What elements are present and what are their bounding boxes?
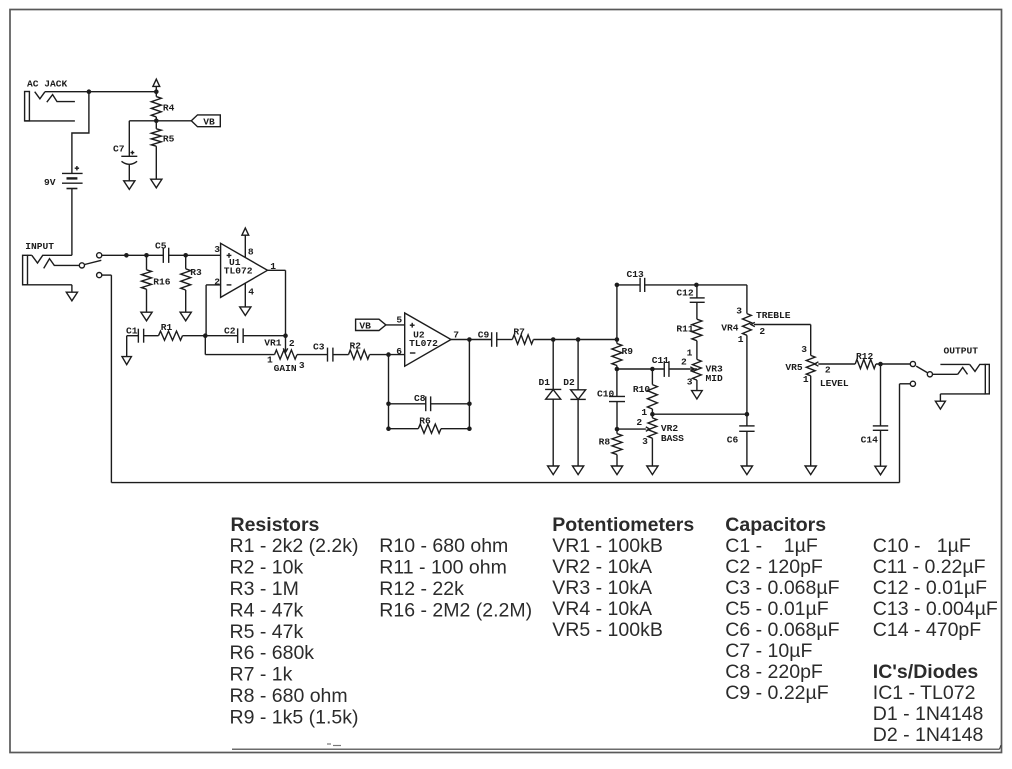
svg-text:VR5 - 100kB: VR5 - 100kB xyxy=(552,619,663,641)
svg-text:1: 1 xyxy=(267,354,273,365)
ground (C6) xyxy=(741,466,752,475)
power arrow (9V supply) xyxy=(153,79,160,86)
svg-text:TL072: TL072 xyxy=(224,266,253,277)
svg-text:R16 - 2M2 (2.2M): R16 - 2M2 (2.2M) xyxy=(379,599,532,621)
svg-text:8: 8 xyxy=(248,247,254,258)
wire: arrow to junction xyxy=(155,87,157,97)
junction: C13 left xyxy=(615,283,620,288)
ground (C14) xyxy=(875,466,886,475)
svg-text:1: 1 xyxy=(803,374,809,385)
wire: VB tag to pin 5 xyxy=(386,324,405,326)
wire: battery negative to input jack xyxy=(71,189,73,256)
svg-text:C9 - 0.22µF: C9 - 0.22µF xyxy=(725,682,828,704)
svg-text:R4: R4 xyxy=(163,103,175,114)
wire: R4 to VB node xyxy=(155,117,157,129)
svg-text:IC1 - TL072: IC1 - TL072 xyxy=(873,682,976,704)
svg-text:R2: R2 xyxy=(350,341,362,352)
ground (D1) xyxy=(548,466,559,475)
junction: D2 top xyxy=(576,337,581,342)
svg-text:C14 - 470pF: C14 - 470pF xyxy=(873,619,981,641)
potentiometer VR5 LEVEL xyxy=(810,325,812,356)
resistor R12 xyxy=(855,359,876,368)
svg-text:3: 3 xyxy=(687,377,693,388)
svg-text:Potentiometers: Potentiometers xyxy=(552,514,694,536)
wire: VR2 node to C6 xyxy=(652,413,747,415)
svg-text:C5: C5 xyxy=(155,240,167,251)
resistor R7 xyxy=(512,335,533,344)
svg-text:5: 5 xyxy=(396,314,402,325)
wire: VB node to tag xyxy=(156,120,191,122)
resistor R4 xyxy=(151,97,161,117)
svg-text:C8: C8 xyxy=(414,393,426,404)
svg-text:C2 - 120pF: C2 - 120pF xyxy=(725,556,823,578)
svg-text:C13 - 0.004µF: C13 - 0.004µF xyxy=(873,598,998,620)
resistor R1 xyxy=(159,331,183,340)
wire: feedback to output xyxy=(468,340,470,429)
wire: U2 output xyxy=(451,339,492,341)
wire: battery positive xyxy=(72,92,89,174)
svg-text:R12 - 22k: R12 - 22k xyxy=(379,578,464,600)
ground (input jack) xyxy=(66,292,77,301)
wire: feedback vertical xyxy=(388,355,390,429)
junction: R16 top xyxy=(144,253,149,258)
svg-text:1: 1 xyxy=(641,407,647,418)
ground (VR3) xyxy=(692,391,703,399)
junction: R9/C13 node xyxy=(615,337,620,342)
svg-text:C13: C13 xyxy=(627,269,645,280)
svg-text:LEVEL: LEVEL xyxy=(820,378,849,389)
resistor R2 xyxy=(349,350,370,359)
svg-text:C9: C9 xyxy=(478,329,490,340)
svg-text:2: 2 xyxy=(681,356,687,367)
wire: R12 to switch xyxy=(876,363,910,365)
junction: C10/R8/VR2 wiper xyxy=(615,427,620,432)
svg-text:2: 2 xyxy=(636,417,642,428)
svg-text:C7 - 10µF: C7 - 10µF xyxy=(725,640,812,662)
junction: C12 top xyxy=(694,283,699,288)
potentiometer VR1 GAIN xyxy=(204,336,206,355)
svg-text:R1: R1 xyxy=(161,322,173,333)
wire: pin 2 feedback xyxy=(206,284,221,286)
ground (U1 pin 4) xyxy=(240,307,251,316)
wire: U1 output xyxy=(268,269,286,271)
svg-text:R8: R8 xyxy=(599,437,611,448)
svg-text:VR2 - 10kA: VR2 - 10kA xyxy=(552,556,652,578)
wire: VB node to C7 xyxy=(129,120,156,122)
wire: R5 to ground xyxy=(155,146,157,179)
svg-text:R2 - 10k: R2 - 10k xyxy=(230,557,304,579)
svg-text:3: 3 xyxy=(299,360,305,371)
svg-text:C5 - 0.01µF: C5 - 0.01µF xyxy=(725,598,828,620)
svg-text:R8 - 680 ohm: R8 - 680 ohm xyxy=(230,685,348,707)
junction: input line xyxy=(124,253,129,258)
svg-text:C14: C14 xyxy=(861,434,879,445)
svg-text:VR1 - 100kB: VR1 - 100kB xyxy=(552,535,663,557)
wire: switch to C5 xyxy=(102,254,163,256)
svg-text:2: 2 xyxy=(214,276,220,287)
svg-text:VR4: VR4 xyxy=(721,323,739,334)
junction: U1 inverting node xyxy=(203,333,208,338)
svg-text:R7 - 1k: R7 - 1k xyxy=(230,664,293,686)
AC jack connector xyxy=(25,92,30,121)
svg-text:VR5: VR5 xyxy=(785,362,803,373)
svg-text:OUTPUT: OUTPUT xyxy=(944,345,979,356)
svg-text:D1: D1 xyxy=(539,377,551,388)
svg-text:4: 4 xyxy=(248,287,254,298)
svg-text:6: 6 xyxy=(396,346,402,357)
svg-text:IC's/Diodes: IC's/Diodes xyxy=(873,661,979,683)
svg-text:R5 - 47k: R5 - 47k xyxy=(230,621,304,643)
svg-text:C11: C11 xyxy=(652,355,670,366)
svg-text:7: 7 xyxy=(453,329,459,340)
resistor R16 xyxy=(146,255,148,269)
resistor R5 xyxy=(151,129,161,146)
svg-text:D1 - 1N4148: D1 - 1N4148 xyxy=(873,703,984,725)
svg-text:9V: 9V xyxy=(44,177,56,188)
resistor R11 xyxy=(692,319,702,341)
ground (VR5) xyxy=(805,466,816,475)
junction: C14 top xyxy=(878,362,883,367)
svg-text:R11 - 100 ohm: R11 - 100 ohm xyxy=(379,557,507,579)
wire: AC jack to R4 node xyxy=(45,91,156,93)
junction: C6 top xyxy=(745,412,750,417)
svg-text:1: 1 xyxy=(738,334,744,345)
junction: C8 right xyxy=(467,402,472,407)
svg-text:3: 3 xyxy=(801,344,807,355)
power arrow (U1 pin 8) xyxy=(242,228,249,235)
svg-text:R10: R10 xyxy=(633,384,651,395)
input jack connector xyxy=(23,255,28,284)
op-amp U2 TL072 xyxy=(405,313,451,366)
svg-text:R12: R12 xyxy=(856,351,874,362)
svg-text:VR3 - 10kA: VR3 - 10kA xyxy=(552,577,652,599)
svg-text:C6: C6 xyxy=(727,434,739,445)
svg-text:C12: C12 xyxy=(676,287,694,298)
svg-text:R4 - 47k: R4 - 47k xyxy=(230,599,304,621)
ground (D2) xyxy=(573,466,584,475)
wire: pin 3 stub xyxy=(186,254,221,256)
svg-text:C11 - 0.22µF: C11 - 0.22µF xyxy=(873,556,986,578)
junction: R6 right xyxy=(467,426,472,431)
wire: up to C13 xyxy=(616,285,618,340)
svg-text:3: 3 xyxy=(736,306,742,317)
svg-text:C3: C3 xyxy=(313,342,325,353)
svg-text:D2 - 1N4148: D2 - 1N4148 xyxy=(873,724,984,746)
svg-text:R1 - 2k2 (2.2k): R1 - 2k2 (2.2k) xyxy=(230,535,359,557)
svg-text:2: 2 xyxy=(759,326,765,337)
svg-text:VR1: VR1 xyxy=(264,338,282,349)
svg-text:VB: VB xyxy=(203,117,215,128)
svg-text:TL072: TL072 xyxy=(409,338,438,349)
ground (R5) xyxy=(151,179,162,188)
svg-text:AC JACK: AC JACK xyxy=(27,78,68,89)
wire: VR1 pin3 to C3 xyxy=(297,354,328,356)
svg-text:R11: R11 xyxy=(676,324,694,335)
svg-text:R3 - 1M: R3 - 1M xyxy=(230,578,299,600)
ground (R16) xyxy=(141,312,152,321)
bypass switch (output side) xyxy=(910,361,915,366)
svg-text:C10: C10 xyxy=(597,388,615,399)
ground (C7) xyxy=(124,181,135,190)
ground (C1) xyxy=(122,357,131,365)
svg-text:R16: R16 xyxy=(153,277,171,288)
wire: bypass run xyxy=(102,274,112,276)
resistor R9 xyxy=(616,340,618,344)
svg-text:VR4 - 10kA: VR4 - 10kA xyxy=(552,598,652,620)
svg-text:C12 - 0.01µF: C12 - 0.01µF xyxy=(873,577,987,599)
ground (output jack) xyxy=(935,401,945,409)
svg-text:Resistors: Resistors xyxy=(231,514,320,536)
junction: C8 left xyxy=(386,402,391,407)
wire: R9 node to C11 xyxy=(617,368,665,370)
ground (R8) xyxy=(611,466,622,475)
svg-text:VB: VB xyxy=(359,321,371,332)
svg-text:R9 - 1k5 (1.5k): R9 - 1k5 (1.5k) xyxy=(230,707,359,729)
svg-text:R10 - 680 ohm: R10 - 680 ohm xyxy=(379,535,508,557)
svg-text:R7: R7 xyxy=(513,327,525,338)
svg-text:D2: D2 xyxy=(563,377,575,388)
ground (R3) xyxy=(180,312,191,321)
svg-text:BASS: BASS xyxy=(661,433,684,444)
wire: C13 line to VR4 xyxy=(696,284,747,286)
net tag VB (U2 bias) xyxy=(356,319,386,330)
junction: D1 top xyxy=(551,337,556,342)
svg-text:C6 - 0.068µF: C6 - 0.068µF xyxy=(725,619,839,641)
junction: U1 output node xyxy=(283,333,288,338)
junction: R9 bottom node xyxy=(615,367,620,372)
wire: R7 to tone stack xyxy=(533,339,617,341)
svg-text:C10 - 1µF: C10 - 1µF xyxy=(873,535,971,557)
ground (VR2) xyxy=(647,466,658,475)
pin 4 / V- xyxy=(244,283,246,307)
junction: R4 top xyxy=(154,89,159,94)
svg-text:2: 2 xyxy=(825,365,831,376)
svg-text:R6 - 680k: R6 - 680k xyxy=(230,642,315,664)
potentiometer VR4 TREBLE xyxy=(746,285,748,314)
svg-text:C3 - 0.068µF: C3 - 0.068µF xyxy=(725,577,839,599)
junction: VR2 top node xyxy=(650,412,655,417)
svg-text:MID: MID xyxy=(706,373,724,384)
svg-text:R3: R3 xyxy=(190,267,202,278)
junction: R10 top xyxy=(650,367,655,372)
junction: AC jack / battery xyxy=(87,89,92,94)
pin 8 / V+ xyxy=(244,235,246,257)
junction: U2 output node xyxy=(467,337,472,342)
svg-text:2: 2 xyxy=(289,338,295,349)
svg-text:3: 3 xyxy=(642,436,648,447)
svg-text:C2: C2 xyxy=(224,325,236,336)
svg-text:1: 1 xyxy=(687,347,693,358)
wire: R1 to node xyxy=(183,335,206,337)
output jack connector xyxy=(940,363,969,365)
svg-text:Capacitors: Capacitors xyxy=(725,514,826,536)
svg-text:GAIN: GAIN xyxy=(274,363,297,374)
svg-text:INPUT: INPUT xyxy=(25,241,54,252)
svg-text:C1: C1 xyxy=(126,325,138,336)
svg-text:C1 - 1µF: C1 - 1µF xyxy=(725,535,818,557)
svg-text:C7: C7 xyxy=(113,144,125,155)
svg-text:R5: R5 xyxy=(163,133,175,144)
junction: R6 left xyxy=(386,426,391,431)
svg-text:R9: R9 xyxy=(622,346,634,357)
net tag VB (source) xyxy=(191,115,220,127)
junction: VB node xyxy=(154,119,159,124)
junction: U2 inverting node xyxy=(386,352,391,357)
resistor R3 xyxy=(185,255,187,268)
bypass switch (input side) xyxy=(79,263,84,268)
junction: R3 top xyxy=(183,253,188,258)
op-amp U1 TL072 xyxy=(221,243,268,297)
svg-text:C8 - 220pF: C8 - 220pF xyxy=(725,661,823,683)
wire: R11 to VR3 xyxy=(696,341,698,360)
svg-text:TREBLE: TREBLE xyxy=(756,310,791,321)
wire: R2 to pin 6 xyxy=(370,354,405,356)
svg-text:3: 3 xyxy=(214,244,220,255)
